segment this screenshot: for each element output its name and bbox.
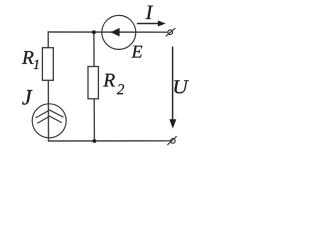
label I	[146, 6, 154, 19]
node B (bottom junction)	[93, 139, 97, 143]
EMF source E	[102, 15, 136, 49]
wire top rail	[48, 31, 167, 33]
wire left branch	[47, 32, 49, 141]
label R1 (R)	[22, 51, 34, 64]
label E	[131, 46, 142, 58]
label R2 (R)	[103, 74, 115, 87]
terminal top	[166, 28, 176, 36]
label R2 (sub 2)	[117, 84, 124, 94]
wire R2 branch	[93, 32, 96, 141]
terminal bottom	[167, 136, 176, 145]
arrow current I	[137, 21, 166, 27]
wire bottom rail	[49, 140, 171, 142]
label R1 (sub 1)	[33, 60, 38, 69]
resistor R1	[42, 48, 53, 81]
arrow voltage U	[169, 47, 176, 129]
node A (top junction)	[92, 30, 96, 34]
resistor R2	[88, 67, 98, 99]
label U	[174, 80, 189, 93]
label J	[22, 90, 32, 105]
current source J	[32, 104, 66, 138]
